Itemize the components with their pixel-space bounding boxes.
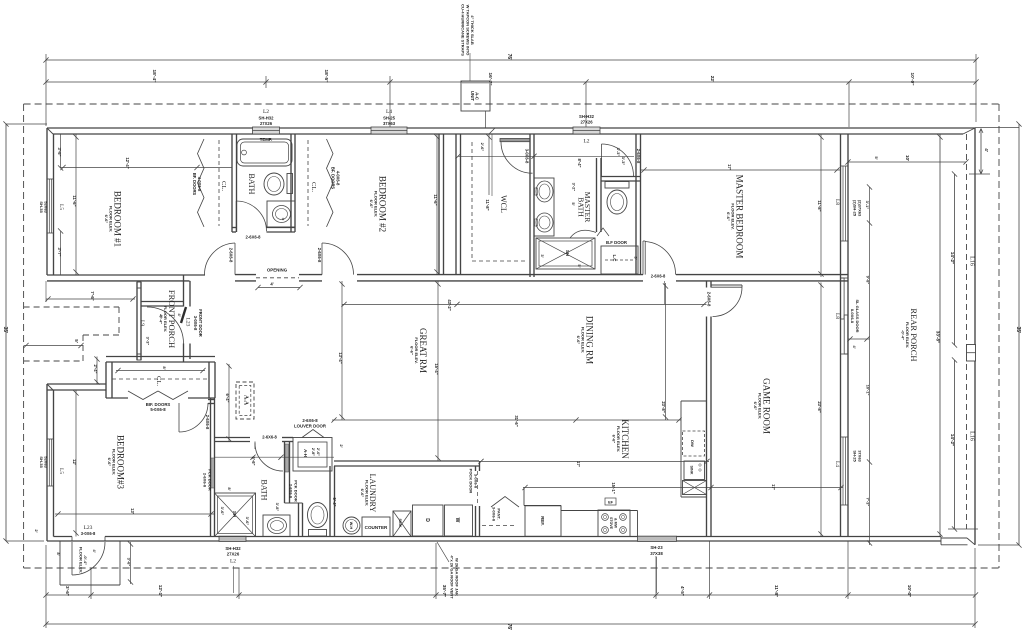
svg-text:10': 10': [905, 155, 910, 161]
svg-text:6'-6": 6'-6": [251, 456, 256, 465]
svg-text:SINK: SINK: [690, 465, 694, 474]
dimension: 14-2 rear porch right upper: [954, 174, 956, 345]
svg-text:B.F DOOR: B.F DOOR: [606, 240, 628, 245]
svg-text:4" THICK SLAB: 4" THICK SLAB: [470, 15, 475, 45]
svg-text:8': 8': [227, 487, 232, 490]
window L2 master top wall: [573, 127, 600, 134]
svg-text:12'-1": 12'-1": [158, 585, 163, 597]
door game room swing: [713, 287, 743, 316]
svg-text:31'-6": 31'-6": [514, 415, 519, 426]
svg-text:12'-4": 12'-4": [125, 157, 130, 168]
window L5 bedroom 3 left wall: [47, 439, 54, 486]
svg-text:11'-8": 11'-8": [485, 199, 490, 210]
svg-text:CU-4 HURRICANE STRAPS: CU-4 HURRICANE STRAPS: [461, 4, 466, 56]
svg-text:3'-6": 3'-6": [245, 517, 250, 526]
svg-text:W-H: W-H: [349, 522, 353, 530]
svg-text:L2: L2: [583, 139, 589, 145]
svg-text:L4: L4: [834, 461, 840, 467]
rear porch dashed roof line: [966, 134, 968, 529]
label closet3 8ft: [116, 370, 205, 372]
svg-text:L23: L23: [185, 318, 191, 327]
kitchen east counter: [680, 401, 682, 497]
svg-text:13'-4": 13'-4": [338, 352, 343, 363]
front porch west posts: [136, 282, 138, 360]
svg-text:5': 5': [571, 202, 576, 205]
svg-text:3'-7": 3'-7": [57, 247, 62, 256]
dashed roof eave outline: [24, 103, 999, 105]
toilet room walls: [596, 158, 598, 232]
svg-text:15'-4": 15'-4": [434, 363, 439, 374]
section marker A-A: [236, 382, 254, 419]
front porch south edge / closet north wall: [106, 356, 215, 358]
svg-text:2-6X6-8: 2-6X6-8: [302, 418, 318, 423]
svg-text:6'-6": 6'-6": [410, 346, 415, 355]
dimension line: bottom segments: [46, 594, 976, 596]
svg-text:2-6X6-8: 2-6X6-8: [205, 415, 210, 430]
dim bedroom1 horizontal 12-4: [61, 167, 232, 169]
svg-text:27X26: 27X26: [260, 121, 273, 126]
dishwasher dashed: [683, 431, 705, 456]
svg-text:3'-6": 3'-6": [57, 147, 62, 156]
dimension line: overall 35 ft left: [5, 124, 7, 541]
closet bedroom3 bifold doors: [128, 391, 158, 400]
rear porch east slab edge: [974, 128, 976, 545]
wall: bath1 south with door gap: [232, 227, 236, 229]
note roof vent: [437, 542, 449, 562]
door bedroom3 exterior swing: [71, 542, 73, 575]
svg-text:SH-25: SH-25: [853, 450, 858, 462]
bedroom 3 north wall: [47, 383, 106, 385]
wall: bath1 east: [290, 134, 292, 232]
closet1 bifold doors: [198, 139, 205, 227]
sliding glass door game room east: [841, 278, 845, 319]
front door swing: [181, 307, 186, 323]
shower bath2: [215, 493, 256, 537]
linen closet LC: [601, 246, 638, 274]
svg-text:A-H: A-H: [303, 449, 308, 457]
svg-text:3': 3': [634, 256, 639, 259]
dim bedroom1 vertical 3-6 / 3-7: [60, 134, 62, 168]
svg-text:4': 4': [159, 314, 164, 317]
svg-text:37X38: 37X38: [650, 551, 663, 556]
svg-text:37X63: 37X63: [383, 121, 396, 126]
svg-text:11'-8": 11'-8": [774, 585, 779, 597]
svg-text:8'-4": 8'-4": [577, 158, 582, 167]
wall: laundry west: [329, 466, 331, 537]
svg-text:BATH: BATH: [577, 197, 586, 217]
door master bedroom swing: [642, 241, 644, 275]
wall: laundry north: [334, 460, 479, 462]
front porch north interior wall: [141, 301, 184, 303]
wall: pantry east / kitchen counter start: [523, 488, 525, 506]
svg-text:10'-1": 10'-1": [866, 385, 871, 396]
wall: master bedroom west: [635, 134, 637, 275]
svg-text:2-6X6-8: 2-6X6-8: [317, 248, 322, 263]
svg-text:3-0X6-8: 3-0X6-8: [473, 474, 478, 489]
door bedroom2 swing: [321, 243, 323, 275]
svg-text:2-6X6-8: 2-6X6-8: [289, 484, 294, 499]
svg-text:3'-3": 3'-3": [621, 157, 626, 166]
svg-text:EF: EF: [608, 501, 614, 505]
svg-text:4': 4': [852, 345, 857, 348]
svg-text:5': 5': [874, 156, 879, 159]
svg-text:TEMP.: TEMP.: [260, 137, 273, 142]
svg-text:2'-6": 2'-6": [316, 448, 320, 456]
svg-text:18'-5": 18'-5": [323, 69, 329, 82]
AC unit: [461, 81, 490, 111]
svg-text:3-0X6-8: 3-0X6-8: [492, 507, 497, 522]
svg-text:33'-8": 33'-8": [936, 331, 941, 343]
svg-text:8': 8': [162, 366, 167, 369]
svg-text:23'-8": 23'-8": [661, 401, 666, 412]
closet2 bifold doors: [327, 139, 334, 227]
water heater WH: [343, 517, 360, 534]
dimension line: overall 76 ft top: [46, 59, 976, 61]
wall: WCL west: [455, 134, 457, 275]
svg-text:76': 76': [506, 624, 512, 630]
svg-text:LOUVER DOOR: LOUVER DOOR: [294, 424, 327, 429]
dim bedroom2 11-6: [436, 134, 438, 275]
svg-text:4-0X6-8: 4-0X6-8: [335, 171, 340, 186]
svg-text:4': 4': [177, 313, 182, 316]
closet1 dashed shelf: [218, 140, 220, 226]
exterior wall: front entry wall: [183, 275, 185, 307]
kitchen sink: [684, 461, 705, 480]
window L4 bedroom2 top wall: [371, 127, 407, 134]
svg-text:13': 13': [130, 508, 135, 514]
svg-text:53X63: 53X63: [44, 456, 49, 468]
svg-text:6'-4": 6'-4": [225, 393, 230, 402]
washer: [445, 505, 473, 536]
svg-text:35'-7": 35'-7": [442, 585, 447, 597]
door gap L23 in south wall: [71, 537, 73, 542]
dimension: 14-2 rear porch right lower: [954, 360, 956, 529]
exterior wall: bottom (south): [47, 540, 941, 542]
svg-text:11'-6": 11'-6": [72, 195, 77, 206]
dim 4ft opening: [258, 287, 300, 289]
dimension line: overall 35 ft right: [1018, 124, 1020, 545]
svg-text:DW: DW: [690, 440, 695, 447]
svg-text:3'-6": 3'-6": [220, 507, 225, 516]
svg-text:5': 5': [74, 339, 79, 343]
svg-text:7'-3": 7'-3": [866, 498, 871, 507]
dim master bedroom 17: [641, 169, 840, 171]
svg-text:6'-6": 6'-6": [104, 215, 109, 224]
svg-text:A.A: A.A: [243, 395, 249, 406]
door bath1 swing: [236, 201, 266, 231]
rear porch column: [967, 345, 976, 362]
svg-text:2-6X6-8: 2-6X6-8: [262, 435, 277, 440]
svg-text:17': 17': [771, 484, 776, 490]
corner chamfer porch SE: [967, 538, 975, 545]
toilet bath2: [308, 503, 328, 528]
bf shower door chevron: [597, 228, 609, 236]
svg-text:POCK DOOR: POCK DOOR: [469, 469, 474, 494]
dashed eave notch at front porch: [118, 307, 120, 335]
svg-text:UNIT: UNIT: [470, 91, 475, 102]
dim 13-4: [341, 281, 343, 420]
svg-text:23'-8": 23'-8": [817, 401, 822, 412]
dimension line: overall 76 ft bottom: [46, 623, 975, 625]
door game room leaf: [711, 284, 742, 286]
svg-text:18'-4": 18'-4": [151, 69, 157, 82]
svg-text:4'-5": 4'-5": [680, 586, 685, 596]
svg-text:22': 22': [709, 76, 715, 82]
svg-text:W: W: [454, 518, 460, 523]
shower master bath: [536, 238, 595, 269]
svg-text:5'-4": 5'-4": [332, 497, 337, 506]
svg-text:PANT.: PANT.: [496, 508, 501, 519]
svg-text:3'-3": 3'-3": [146, 337, 151, 346]
svg-text:8-0X6-8: 8-0X6-8: [850, 309, 855, 324]
leader 43-2 extension: [664, 281, 666, 304]
window L5 bedroom 1 left wall: [47, 179, 54, 233]
svg-text:CL.: CL.: [155, 376, 162, 386]
dims east side: [869, 162, 871, 187]
kitchen counter south edge: [524, 505, 561, 507]
dim 2-4: [96, 357, 98, 385]
svg-text:2-6X6-8: 2-6X6-8: [229, 248, 234, 263]
svg-text:BATH: BATH: [260, 480, 269, 501]
louver door chevron: [302, 430, 324, 438]
svg-text:L.C: L.C: [612, 255, 617, 262]
wall: bath1 west: [231, 134, 233, 232]
pocket door bedroom3 gray: [211, 458, 214, 488]
svg-text:11'-8": 11'-8": [817, 200, 822, 211]
wall: laundry east with pocket door: [475, 466, 477, 471]
dim hall 6-6: [215, 456, 334, 458]
wall: hall north (bath2): [215, 437, 250, 439]
svg-text:9'-8": 9'-8": [866, 276, 871, 285]
svg-text:PCK DOOR: PCK DOOR: [293, 480, 298, 502]
svg-text:2'-8": 2'-8": [311, 448, 315, 456]
dimension: 10 ft porch width: [848, 161, 966, 163]
label EF: [605, 498, 616, 505]
vanity master bath double sinks: [534, 178, 554, 236]
corner chamfer top-right: [963, 128, 975, 134]
svg-text:8': 8': [56, 552, 61, 555]
dim 13 bedroom3: [55, 513, 214, 515]
svg-text:2'-6": 2'-6": [480, 143, 485, 152]
opening dashed between hall and great room: [256, 277, 299, 279]
svg-text:OPENING: OPENING: [267, 268, 288, 273]
exterior wall: left of bedroom 3: [46, 384, 48, 541]
dim 5-4 laundry: [334, 471, 336, 537]
svg-text:6'-6": 6'-6": [369, 200, 374, 209]
tub bath1: [237, 139, 292, 166]
svg-text:35': 35': [2, 327, 8, 334]
svg-text:5': 5': [577, 264, 582, 267]
closet bedroom3 shelf dashed: [112, 378, 209, 380]
svg-text:6'-6": 6'-6": [726, 212, 731, 221]
svg-text:2-6X6-8: 2-6X6-8: [707, 292, 712, 307]
wall: bedroom2 east: [438, 134, 440, 275]
dim 17 kitchen: [479, 460, 709, 462]
dimension: 33-8 rear porch: [939, 134, 941, 537]
corner chamfer top-left: [47, 128, 53, 134]
svg-text:3-0X6-8: 3-0X6-8: [193, 316, 198, 331]
svg-text:14'-2": 14'-2": [950, 252, 955, 264]
svg-text:6'-6": 6'-6": [576, 336, 581, 345]
svg-text:(2)SH-25: (2)SH-25: [853, 200, 858, 217]
wall: master bath west: [529, 134, 531, 277]
dim 23-8 kitchen: [665, 283, 667, 420]
svg-text:2': 2': [34, 529, 39, 532]
WCL dashed shelves: [471, 142, 473, 261]
vanity bath1: [267, 201, 295, 227]
svg-text:PCK DOOR: PCK DOOR: [207, 469, 212, 491]
svg-text:L4: L4: [386, 109, 392, 115]
wall: game room west: [706, 281, 708, 288]
svg-text:4': 4': [270, 282, 273, 287]
pantry shelf dashed: [482, 525, 517, 527]
svg-text:2-6X6-8: 2-6X6-8: [203, 473, 208, 488]
svg-text:5-0X6-8: 5-0X6-8: [150, 407, 166, 412]
svg-text:L9: L9: [139, 320, 145, 326]
dim 15-4: [437, 281, 439, 461]
svg-text:37X63: 37X63: [857, 450, 862, 462]
dim 43-2: [342, 303, 707, 305]
shower door arc: [570, 230, 596, 238]
pantry shelves X next to game wall: [683, 481, 707, 495]
svg-text:4-0X6-8: 4-0X6-8: [197, 177, 202, 192]
dryer: [413, 505, 444, 536]
svg-text:4': 4': [984, 148, 989, 152]
svg-text:SH-H32: SH-H32: [225, 546, 241, 551]
svg-text:& MW: & MW: [614, 518, 618, 529]
dim 6-4 hall: [228, 364, 230, 442]
svg-text:D: D: [424, 518, 430, 522]
svg-text:(2)37X63: (2)37X63: [857, 200, 862, 217]
svg-text:4"x 26 GA ROOF VENT: 4"x 26 GA ROOF VENT: [450, 555, 455, 599]
laundry counter: [362, 517, 390, 537]
svg-text:CL.: CL.: [220, 181, 227, 191]
svg-text:CL.: CL.: [310, 182, 317, 192]
svg-text:3'-6": 3'-6": [65, 586, 70, 596]
svg-text:27X26: 27X26: [227, 552, 240, 557]
svg-text:43'-2": 43'-2": [447, 299, 452, 310]
dim 7-6 front: [46, 298, 135, 300]
dim 5 porch: [24, 345, 83, 347]
svg-text:L8: L8: [834, 313, 840, 319]
svg-text:SH: SH: [565, 250, 570, 256]
WCL dim extension line: [491, 134, 493, 196]
wall: bath2 pocket wall west: [284, 442, 286, 504]
toilet room door swing: [601, 144, 603, 176]
svg-text:SH-35: SH-35: [39, 456, 44, 468]
svg-text:27X26: 27X26: [580, 120, 593, 125]
svg-text:L2: L2: [230, 559, 236, 565]
svg-text:SH-23: SH-23: [650, 545, 663, 550]
corner chamfer bedroom3 NW: [47, 384, 53, 390]
extension lines top: [45, 54, 47, 126]
WCL door panel and swing: [500, 139, 530, 142]
air handler closet: [293, 438, 332, 472]
dimension line: top segments 18-4 / 10-5 / 16-7 / 22 / 10-0: [46, 81, 976, 83]
svg-text:REF.: REF.: [540, 516, 545, 526]
svg-text:BF. DOORS: BF. DOORS: [331, 167, 336, 190]
svg-text:L2: L2: [263, 109, 269, 115]
refrigerator: [525, 506, 561, 537]
svg-text:3-0X6-8: 3-0X6-8: [81, 531, 96, 536]
svg-text:7'-6": 7'-6": [90, 291, 95, 300]
dim stoop 3-6: [130, 542, 132, 584]
svg-text:17': 17': [576, 461, 581, 467]
svg-text:35': 35': [1015, 327, 1021, 334]
svg-text:L5: L5: [58, 468, 64, 474]
svg-text:BF. DOORS: BF. DOORS: [192, 173, 197, 196]
svg-text:3': 3': [540, 254, 545, 257]
svg-text:FLOOR ELEV.: FLOOR ELEV.: [79, 547, 84, 573]
window sill kitchen south wall: [638, 536, 677, 541]
dim 31-6: [332, 419, 681, 421]
svg-text:L8: L8: [834, 199, 840, 205]
door bedroom3 entry: [208, 399, 215, 401]
svg-text:12': 12': [72, 459, 77, 465]
svg-text:3'-8": 3'-8": [275, 503, 280, 512]
svg-text:6'-6": 6'-6": [107, 458, 112, 467]
svg-text:SL GLASS DOOR: SL GLASS DOOR: [855, 299, 860, 332]
rear porch south edge: [941, 537, 967, 539]
dim 12 bedroom3: [75, 390, 77, 537]
svg-text:53X63: 53X63: [44, 201, 49, 213]
svg-text:SINK: SINK: [398, 518, 402, 527]
svg-text:SH: SH: [232, 511, 237, 517]
window sill bath2 south wall: [219, 536, 246, 541]
exterior wall: left of bedroom 1: [46, 128, 48, 275]
dim WCL 11-8: [488, 134, 490, 195]
corner chamfer bottom-left: [47, 535, 54, 542]
svg-text:6'-6": 6'-6": [753, 402, 758, 411]
dim 23-8 game room: [820, 283, 822, 537]
svg-text:3'-2": 3'-2": [572, 183, 577, 192]
closet bedroom3 box: [105, 362, 107, 398]
svg-text:15'-1": 15'-1": [611, 482, 616, 493]
svg-text:3'-6": 3'-6": [127, 558, 132, 567]
toilet master bath: [605, 182, 629, 189]
svg-text:17': 17': [727, 164, 732, 170]
entry stoop: [59, 541, 61, 585]
svg-text:SH-35: SH-35: [39, 201, 44, 213]
svg-text:BATH: BATH: [247, 174, 256, 195]
svg-text:2-6X6-8: 2-6X6-8: [246, 235, 262, 240]
door bedroom1 swing: [234, 243, 236, 275]
dim 4ft slider: [848, 338, 870, 340]
svg-text:L5: L5: [58, 204, 64, 210]
svg-text:-0'-4": -0'-4": [83, 555, 88, 565]
svg-text:STOVE: STOVE: [609, 517, 613, 530]
svg-text:14'-2": 14'-2": [950, 434, 955, 446]
svg-text:L16: L16: [969, 256, 975, 266]
dim 15-1 / 17: [523, 487, 843, 489]
pantry door chevron: [491, 497, 519, 508]
svg-text:W TAPCON SCREWS INTO: W TAPCON SCREWS INTO: [465, 5, 470, 56]
stove: [598, 510, 630, 537]
svg-text:L16: L16: [969, 431, 975, 441]
svg-text:FRONT DOOR: FRONT DOOR: [198, 309, 203, 337]
svg-text:76': 76': [506, 54, 512, 61]
svg-text:SH-H32: SH-H32: [579, 114, 595, 119]
svg-text:3'-3": 3'-3": [616, 148, 621, 157]
svg-text:SH-H32: SH-H32: [259, 116, 275, 121]
svg-text:2'-4": 2'-4": [93, 364, 98, 373]
vanity bath2: [263, 515, 290, 537]
svg-text:COUNTER: COUNTER: [365, 525, 388, 530]
window L4 game room east: [842, 437, 844, 505]
wall: bath2 mid: [298, 503, 300, 537]
laundry sink: [393, 511, 411, 537]
svg-text:WCL: WCL: [499, 195, 508, 213]
